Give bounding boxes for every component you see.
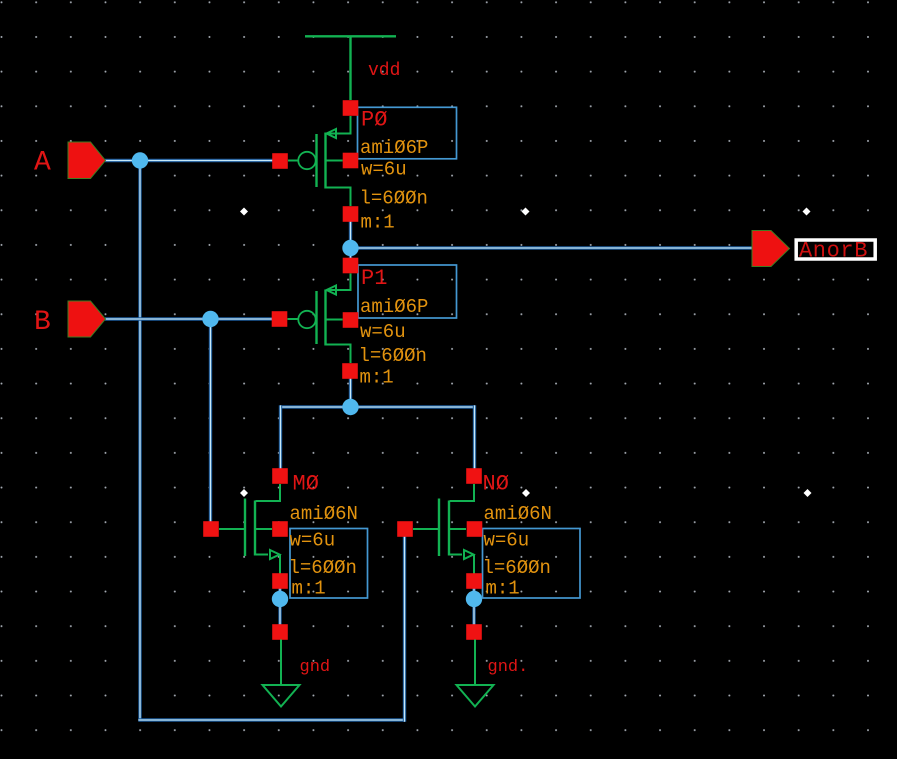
wire net AnorB vertical P0 drain to P1 source — [349, 222, 352, 259]
instance box N0 — [483, 529, 581, 599]
svg-text:vdd: vdd — [368, 61, 400, 81]
junction dot gnd left (280,599) — [272, 591, 288, 607]
output pin AnorB — [752, 231, 790, 267]
P0 gate pin — [272, 153, 288, 169]
grid major marker (806,212) — [803, 208, 811, 216]
svg-text:w=6u: w=6u — [361, 159, 407, 181]
grid major marker (526,493) — [522, 489, 530, 497]
P1 gate pin — [272, 311, 288, 327]
instance box M0 — [290, 529, 368, 599]
gnd pin right — [466, 624, 482, 640]
grid major marker (245,493) — [240, 489, 248, 497]
P0 source pin — [343, 100, 359, 116]
svg-text:amiØ6P: amiØ6P — [360, 137, 428, 159]
wire net B horizontal from pin B to P1 gate — [105, 317, 272, 320]
svg-text:amiØ6N: amiØ6N — [484, 503, 552, 525]
svg-text:amiØ6N: amiØ6N — [290, 503, 358, 525]
wire net n1 vertical P1 drain to node — [349, 379, 352, 408]
svg-text:AnorB: AnorB — [799, 239, 868, 264]
svg-text:PØ: PØ — [361, 108, 387, 133]
input pin A — [68, 142, 106, 179]
wire net n1 horizontal y=407 — [281, 405, 475, 408]
svg-text:m:1: m:1 — [360, 367, 394, 389]
svg-text:gnd.: gnd. — [488, 658, 529, 677]
wire gnd stub M0 source to gnd — [278, 589, 281, 626]
svg-text:amiØ6P: amiØ6P — [360, 296, 428, 318]
M0 drain pin — [272, 468, 288, 484]
junction dot node A (140,160.5) — [132, 152, 148, 168]
svg-text:l=6ØØn: l=6ØØn — [289, 557, 357, 579]
M0 bulk pin — [272, 521, 288, 537]
transistor N0 (NMOS ami06N) — [413, 484, 474, 574]
grid major marker (245,212) — [240, 208, 248, 216]
N0 bulk pin — [467, 521, 483, 537]
N0 source pin — [466, 573, 482, 589]
svg-text:P1: P1 — [361, 266, 387, 291]
svg-text:l=6ØØn: l=6ØØn — [483, 557, 551, 579]
wire net n1 vertical to N0 drain — [473, 405, 476, 469]
svg-text:gnd: gnd — [300, 658, 331, 677]
wire net AnorB horizontal to output pin — [351, 246, 754, 249]
wire net A vertical branch x=140 — [138, 161, 141, 721]
svg-text:l=6ØØn: l=6ØØn — [360, 188, 428, 210]
P1 drain pin — [342, 363, 358, 379]
svg-text:l=6ØØn: l=6ØØn — [359, 345, 427, 367]
grid major marker (525,212) — [522, 208, 530, 216]
ground symbol left — [263, 640, 300, 707]
P0 drain pin — [343, 206, 359, 222]
svg-text:NØ: NØ — [483, 472, 509, 497]
instance box P0 — [358, 107, 457, 159]
svg-text:w=6u: w=6u — [290, 530, 336, 552]
P0 bulk pin — [343, 153, 359, 169]
junction dot net n1 (350.5,407) — [342, 399, 358, 415]
power symbol vdd — [305, 36, 396, 100]
svg-text:B: B — [34, 307, 51, 338]
svg-text:A: A — [34, 148, 51, 179]
svg-text:m:1: m:1 — [361, 212, 395, 234]
junction dot node B (210.5,319) — [202, 311, 218, 327]
wire net A vertical to N0 gate x=404.5 — [403, 536, 406, 722]
ground symbol right — [457, 640, 494, 707]
wire net A bottom horizontal y=720 — [138, 718, 404, 721]
transistor M0 (NMOS ami06N) — [219, 484, 280, 574]
wire net B vertical branch to M0 gate x=210.5 — [209, 319, 212, 522]
wire gnd stub N0 source to gnd — [472, 589, 475, 626]
M0 gate pin — [203, 521, 219, 537]
svg-text:w=6u: w=6u — [360, 321, 406, 343]
svg-text:m:1: m:1 — [486, 578, 520, 600]
svg-text:w=6u: w=6u — [484, 530, 530, 552]
N0 gate pin — [397, 521, 413, 537]
svg-text:MØ: MØ — [293, 472, 319, 497]
P1 bulk pin — [343, 312, 359, 328]
input pin B — [68, 301, 106, 337]
grid major marker (807,493) — [804, 489, 812, 497]
wire net n1 vertical to M0 drain — [279, 405, 282, 469]
wire net A horizontal from pin A to P0 gate — [105, 159, 273, 162]
junction dot gnd right (474,599) — [466, 591, 482, 607]
M0 source pin — [272, 573, 288, 589]
junction dot net AnorB (350.5,248) — [342, 240, 358, 256]
svg-text:m:1: m:1 — [292, 578, 326, 600]
instance box P1 — [358, 265, 457, 318]
output label box AnorB — [796, 239, 875, 264]
transistor P1 (PMOS ami06P) — [288, 274, 351, 364]
gnd pin left — [272, 624, 288, 640]
P1 source pin — [343, 258, 359, 274]
transistor P0 (PMOS ami06P) — [288, 116, 351, 206]
N0 drain pin — [466, 468, 482, 484]
